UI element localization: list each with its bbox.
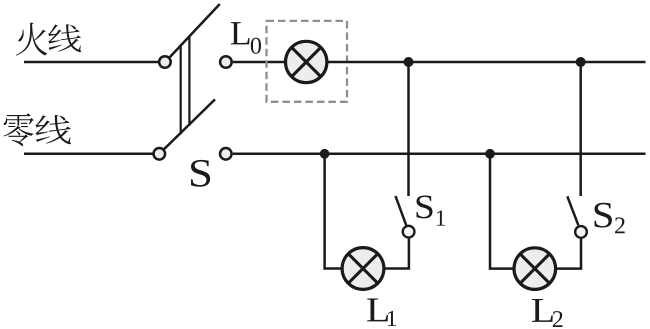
switch S pole-A terminal (top) <box>159 56 171 68</box>
switch S mechanical link (double line) <box>180 45 182 135</box>
switch S2 pivot terminal <box>575 226 587 238</box>
junction node on neutral wire branch 2 <box>485 149 495 159</box>
wire branch2 vertical from live wire to switch S2 <box>579 62 582 196</box>
wire switch S2 to lamp L2 right side <box>556 238 581 268</box>
wire neutral junction down to lamp L2 left side <box>490 154 514 269</box>
wire live-wire left segment <box>24 61 158 64</box>
label live-wire char 线 <box>48 24 81 52</box>
switch S1 pivot terminal <box>403 226 415 238</box>
lamp L0 <box>286 41 327 82</box>
dashed enclosure around lamp L0 <box>267 21 348 102</box>
label L1 <box>367 298 388 321</box>
lamp L1 <box>342 248 384 290</box>
wire neutral junction down to lamp L1 left side <box>325 154 343 269</box>
lamp L2 <box>514 248 556 290</box>
wire terminal to lamp L0 <box>233 61 286 64</box>
wire neutral-wire right segment <box>233 153 646 156</box>
junction node on neutral wire branch 1 <box>320 149 330 159</box>
node terminal of L0 branch <box>220 56 232 68</box>
junction node on live wire branch 2 <box>576 57 586 67</box>
label live-wire char 火 <box>16 23 47 56</box>
node S terminal of neutral row <box>220 148 232 160</box>
wire live-wire right segment <box>327 61 646 64</box>
switch S1 blade <box>396 196 407 225</box>
label S2 <box>595 203 612 228</box>
switch S pole-A blade <box>170 4 220 57</box>
label S1 <box>417 195 433 218</box>
switch S pole-B terminal (bottom) <box>154 148 166 160</box>
junction node on live wire branch 1 <box>404 57 414 67</box>
wire branch1 vertical from live wire to switch S1 <box>407 62 410 196</box>
switch S pole-B blade <box>164 99 215 149</box>
wire neutral-wire left segment <box>24 153 153 156</box>
label L2 <box>532 299 553 322</box>
label L0 <box>231 22 250 44</box>
label S <box>191 160 210 187</box>
switch S2 blade <box>567 196 578 225</box>
label neutral-wire char 线 <box>35 115 71 144</box>
wire switch S1 to lamp L1 right side <box>384 238 409 268</box>
label neutral-wire char 零 <box>4 113 34 146</box>
